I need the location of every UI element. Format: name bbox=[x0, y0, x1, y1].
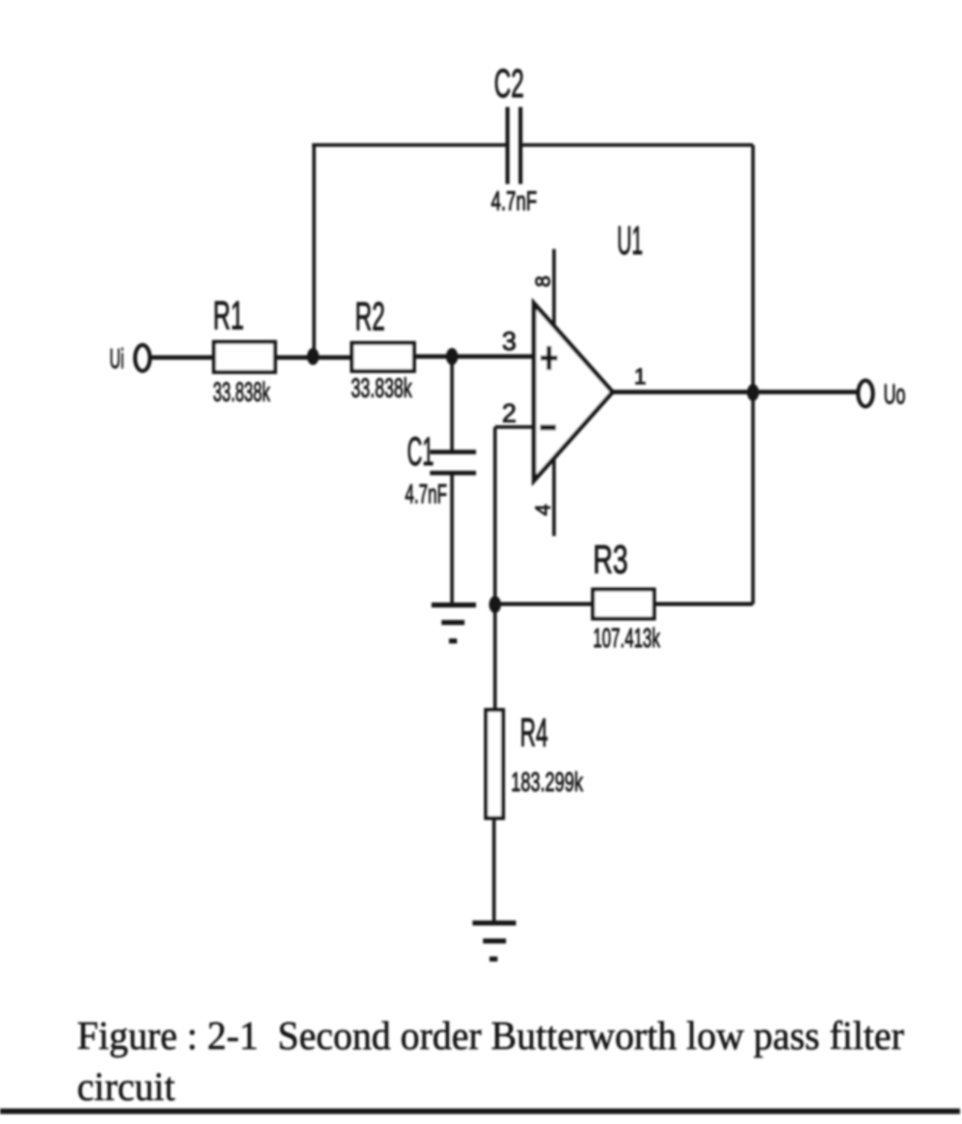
wire C1 bottom to ground bbox=[450, 473, 454, 603]
wire node C to R3 bbox=[495, 602, 593, 606]
svg-text:U1: U1 bbox=[617, 219, 643, 263]
capacitor C1 bbox=[430, 452, 476, 473]
svg-text:Uo: Uo bbox=[884, 379, 906, 410]
junction node D (output / feedback) bbox=[747, 384, 759, 401]
junction node A (R1/R2/C2 tap) bbox=[307, 348, 319, 365]
svg-text:8: 8 bbox=[532, 276, 555, 288]
bottom rule bbox=[0, 1109, 960, 1115]
svg-text:4.7nF: 4.7nF bbox=[405, 479, 447, 509]
wire pin 4 power bbox=[552, 458, 556, 536]
svg-text:circuit: circuit bbox=[77, 1064, 175, 1109]
wire feedback top horizontal, left of C2 bbox=[312, 143, 506, 147]
svg-text:Ui: Ui bbox=[110, 343, 125, 374]
ground under R4 bbox=[473, 923, 517, 959]
svg-text:R2: R2 bbox=[355, 295, 385, 339]
junction node C (pin2/R3/R4) bbox=[489, 596, 501, 613]
wire pin 8 power bbox=[552, 249, 556, 325]
svg-text:R4: R4 bbox=[520, 711, 548, 755]
wire R1 to R2 bbox=[275, 355, 352, 360]
junction node B (R2/C1/pin3) bbox=[446, 348, 458, 365]
resistor R4 (vertical) bbox=[486, 710, 503, 818]
output terminal circle bbox=[858, 381, 873, 407]
wire pin 2 horizontal bbox=[495, 425, 535, 429]
resistor R3 bbox=[593, 590, 654, 619]
wire feedback top horizontal, right of C2 bbox=[522, 143, 753, 147]
wire Ui terminal to R1 bbox=[151, 355, 214, 360]
svg-text:R3: R3 bbox=[593, 538, 628, 582]
svg-text:33.838k: 33.838k bbox=[213, 377, 270, 407]
wire R3 to feedback vertical bbox=[654, 602, 753, 606]
wire node C down to R4 bbox=[493, 604, 497, 712]
svg-text:3: 3 bbox=[502, 326, 516, 356]
svg-text:R1: R1 bbox=[213, 294, 244, 338]
svg-text:107.413k: 107.413k bbox=[593, 623, 660, 653]
wire R2 to op-amp pin 3 bbox=[414, 354, 535, 359]
resistor R1 bbox=[214, 342, 275, 372]
svg-text:C2: C2 bbox=[494, 62, 524, 106]
op-amp minus symbol bbox=[540, 425, 556, 431]
wire right feedback vertical (C2 down through output node to R3) bbox=[751, 145, 755, 604]
svg-text:183.299k: 183.299k bbox=[511, 767, 583, 797]
input terminal circle bbox=[135, 345, 150, 371]
svg-text:4.7nF: 4.7nF bbox=[491, 186, 537, 216]
ground under C1 bbox=[432, 605, 477, 641]
capacitor C2 bbox=[508, 107, 521, 184]
wire output pin 1 bbox=[612, 390, 858, 395]
svg-text:2: 2 bbox=[502, 398, 516, 428]
wire pin 2 vertical down to node C bbox=[493, 427, 497, 604]
wire R4 to ground bbox=[492, 818, 496, 922]
svg-text:C1: C1 bbox=[407, 430, 434, 474]
resistor R2 bbox=[352, 343, 414, 371]
op-amp plus symbol bbox=[541, 346, 558, 370]
wire node B down to C1 bbox=[450, 356, 454, 451]
op-amp U1 bbox=[534, 304, 613, 481]
svg-text:Figure : 2-1 Second order But: Figure : 2-1 Second order Butterworth lo… bbox=[77, 1013, 904, 1058]
svg-text:33.838k: 33.838k bbox=[351, 373, 412, 403]
svg-text:1: 1 bbox=[634, 364, 646, 389]
wire feedback left vertical (node A up to C2 line) bbox=[312, 145, 316, 356]
svg-text:4: 4 bbox=[532, 504, 555, 516]
